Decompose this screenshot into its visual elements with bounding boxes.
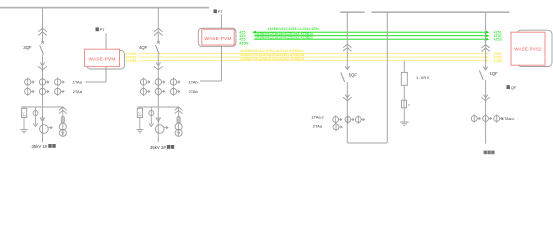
CT row 1TAa-c bbox=[473, 114, 475, 122]
wire breaker 1QF down bbox=[485, 80, 487, 144]
wire bus to disconnector, bay 3QF bbox=[42, 8, 44, 42]
svg-text:WASE-PVM: WASE-PVM bbox=[89, 56, 116, 61]
breaker 1QF tick bbox=[483, 67, 487, 70]
drawout contact lower, bay 1QF bbox=[483, 95, 487, 98]
svg-text:1QF: 1QF bbox=[490, 71, 499, 76]
bridge wire to bus II right bbox=[347, 142, 387, 144]
breaker 1QF slash bbox=[479, 70, 483, 80]
label PT node bay1 bbox=[96, 27, 99, 31]
wire bus to disconnector, bay 4QF bbox=[157, 8, 159, 42]
wire yellow line to resistor 1-4R0 bbox=[403, 61, 405, 73]
label bridge QF bbox=[507, 85, 510, 89]
svg-text:2TAb: 2TAb bbox=[189, 89, 199, 94]
zero-seq CT, bay 3QF bbox=[40, 125, 49, 134]
wire bus II to disconnector, bay 5QF bbox=[346, 12, 348, 69]
svg-text:V: V bbox=[138, 112, 141, 116]
PT windings, bay 4QF bbox=[175, 123, 182, 130]
PT branch contact, bay 3QF bbox=[62, 107, 64, 136]
CT row2, bay 3QF bbox=[27, 87, 29, 96]
PT fuse, bay 4QF bbox=[177, 117, 180, 123]
ground, bay 3QF bbox=[21, 129, 28, 131]
CT extra, bay 5QF bbox=[335, 123, 337, 131]
relay U1 shadow box bbox=[87, 51, 125, 69]
bus II right segment bbox=[372, 11, 510, 13]
wire resistor to element r bbox=[403, 85, 405, 100]
PT fuse box with V, bay 3QF bbox=[23, 107, 25, 108]
wire breaker to CTs, bay 4QF bbox=[157, 55, 159, 142]
svg-text:3QF: 3QF bbox=[23, 45, 32, 50]
yellow line 2 bbox=[139, 56, 488, 58]
element r bbox=[402, 100, 407, 108]
svg-text:1-4R0: 1-4R0 bbox=[416, 75, 430, 80]
svg-text:WASE-PVS2: WASE-PVS2 bbox=[514, 46, 542, 51]
wire breaker to CTs, bay 3QF bbox=[42, 55, 44, 142]
drawout contact lower, bay 5QF bbox=[345, 95, 349, 98]
relay U3 shadow box bbox=[517, 30, 552, 66]
ground of resistor branch bbox=[400, 121, 408, 123]
svg-text:PT: PT bbox=[218, 10, 224, 14]
svg-text:1#35kVYH/1y2dx4122xx413x2 4Y5B: 1#35kVYH/1y2dx4122xx413x2 4Y5B2x1 bbox=[240, 57, 305, 61]
svg-text:35kV 2#: 35kV 2# bbox=[150, 145, 166, 150]
svg-text:PT: PT bbox=[100, 28, 106, 32]
green line 3 bbox=[254, 38, 488, 40]
svg-text:1TAa-c: 1TAa-c bbox=[311, 115, 324, 120]
breaker 5QF tick bbox=[345, 66, 349, 69]
green line 2 bbox=[254, 35, 488, 37]
relay U2 shadow box bbox=[198, 28, 236, 46]
resistor 1-4R0 bbox=[401, 72, 407, 85]
wire label to relay U2 bbox=[221, 15, 223, 29]
junction bar, bay 4QF bbox=[137, 106, 178, 108]
PT branch contact, bay 4QF bbox=[178, 107, 180, 136]
CT row2, bay 4QF bbox=[143, 87, 145, 96]
yellow line 3 bbox=[139, 60, 488, 62]
wire element r to ground bbox=[403, 108, 405, 122]
disconnector contact (chevrons), bay 1QF bbox=[481, 45, 489, 48]
breaker 3QF slash bbox=[40, 45, 44, 54]
svg-text:WASE-PVM: WASE-PVM bbox=[205, 36, 232, 41]
PT windings, bay 3QF bbox=[59, 123, 66, 130]
svg-text:4YH53: 4YH53 bbox=[126, 59, 137, 63]
svg-text:QF: QF bbox=[511, 86, 517, 90]
junction bar, bay 3QF bbox=[22, 106, 63, 108]
wire to ground, bay 4QF bbox=[139, 118, 141, 130]
svg-text:r: r bbox=[409, 103, 411, 107]
wire relay U2 to CT 1TAb bbox=[221, 46, 223, 81]
wire breaker 5QF down bbox=[346, 82, 348, 143]
breaker 4QF slash bbox=[156, 45, 160, 54]
svg-text:1TAa-c: 1TAa-c bbox=[502, 116, 515, 121]
relay U3 WASE-PVS2 box bbox=[511, 32, 545, 65]
svg-text:4QF: 4QF bbox=[139, 45, 148, 50]
zero-seq CT, bay 4QF bbox=[155, 125, 164, 134]
CT row1, bay 4QF bbox=[143, 78, 145, 87]
svg-text:V: V bbox=[22, 112, 25, 116]
surge counter, bay 4QF bbox=[150, 107, 152, 111]
svg-text:2TAa: 2TAa bbox=[73, 89, 83, 94]
relay U1 WASE-PVM box bbox=[85, 49, 120, 66]
wire to ground, bay 3QF bbox=[23, 118, 25, 130]
wire relay U1 to CT 1TAa bbox=[105, 66, 107, 82]
drawout contact lower (arrow+chevron), bay 3QF bbox=[40, 62, 44, 65]
wire label to relay U1 bbox=[105, 33, 107, 49]
drawout contact upper (chevrons), bay 3QF bbox=[38, 28, 47, 32]
breaker 3QF tick bbox=[41, 41, 44, 43]
green line 1 bbox=[254, 31, 489, 33]
svg-text:4Z5M: 4Z5M bbox=[239, 42, 248, 46]
svg-text:4Z53: 4Z53 bbox=[494, 38, 502, 42]
svg-text:1TAa: 1TAa bbox=[73, 80, 83, 85]
breaker 5QF slash bbox=[341, 72, 345, 82]
relay U2 WASE-PVM box bbox=[202, 29, 234, 45]
yellow line 1 bbox=[139, 53, 488, 55]
svg-text:5QF: 5QF bbox=[349, 72, 358, 77]
disconnector contact (chevrons), bay 5QF bbox=[343, 44, 351, 47]
svg-text:1TAb: 1TAb bbox=[189, 80, 199, 85]
bus I 35kV section 1 bbox=[0, 7, 209, 9]
arrester, bay 3QF bbox=[40, 118, 44, 121]
label bridge breaker name bbox=[484, 151, 487, 155]
drawout contact upper (chevrons), bay 4QF bbox=[154, 28, 163, 32]
wire bus II to disconnector, bay 1QF bbox=[485, 12, 487, 69]
svg-text:4Y53: 4Y53 bbox=[494, 59, 502, 63]
label PT node bay2 bbox=[214, 9, 217, 13]
drawout contact lower (arrow+chevron), bay 4QF bbox=[156, 62, 160, 65]
arrester, bay 4QF bbox=[156, 118, 160, 121]
breaker 4QF tick bbox=[157, 41, 160, 43]
svg-text:35kV 1#: 35kV 1# bbox=[32, 144, 48, 149]
ground, bay 4QF bbox=[136, 129, 143, 131]
surge counter, bay 3QF bbox=[35, 107, 37, 111]
CT row, bay 5QF bbox=[335, 115, 337, 123]
svg-text:2TAa: 2TAa bbox=[313, 123, 323, 128]
PT fuse, bay 3QF bbox=[61, 117, 64, 123]
svg-text:1#35kV412/1b2dx41252xx2 4Z5B2x: 1#35kV412/1b2dx41252xx2 4Z5B2x bbox=[255, 36, 313, 40]
svg-text:x1#35kV412 4Z51-1x 411x 4Z5x: x1#35kV412 4Z51-1x 411x 4Z5x bbox=[268, 27, 320, 31]
bus II left segment bbox=[340, 11, 364, 13]
PT fuse box with V, bay 4QF bbox=[139, 107, 141, 108]
CT row1, bay 3QF bbox=[27, 78, 29, 87]
